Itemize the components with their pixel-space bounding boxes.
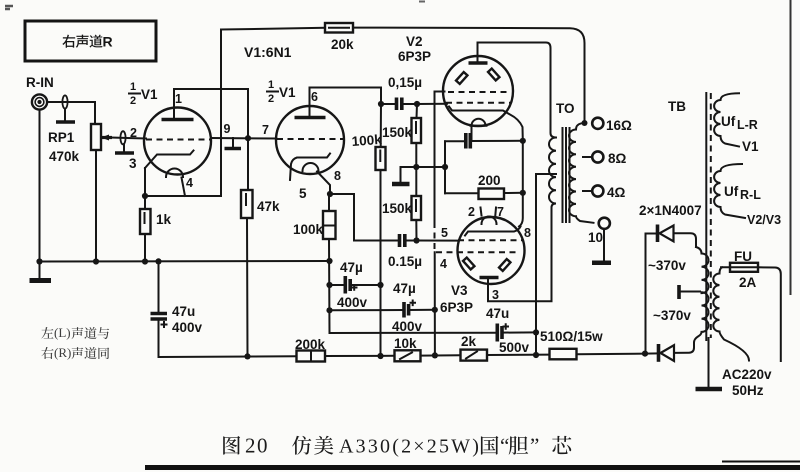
svg-text:~370v: ~370v: [653, 308, 691, 323]
node 47u first right: [377, 282, 383, 288]
ground stub at pin 2 connector: [115, 144, 134, 153]
label V3 6P3P: [440, 283, 473, 315]
heater lead down to cap: [471, 126, 473, 141]
svg-text:5: 5: [299, 186, 307, 201]
svg-text:8: 8: [334, 169, 341, 183]
label 1/2 V1 first: [129, 81, 158, 107]
svg-text:47u: 47u: [486, 306, 509, 321]
svg-text:3: 3: [129, 156, 137, 171]
svg-text:V2: V2: [406, 34, 423, 49]
svg-text:7: 7: [497, 205, 504, 219]
potentiometer RP1 470k: [48, 124, 112, 164]
heater bump: [166, 169, 183, 178]
resistor 200: [445, 173, 523, 199]
svg-text:R: R: [103, 34, 113, 50]
svg-text:2: 2: [468, 205, 475, 219]
beam plate left: [463, 258, 474, 270]
node 150k junction: [413, 164, 419, 170]
node chain 310: [326, 307, 332, 313]
wire 47k bottom down to lower bus: [246, 218, 249, 357]
wire 100k upper chain down: [380, 104, 383, 357]
svg-text:47µ: 47µ: [340, 260, 363, 275]
pin connector ellipse on input wire: [62, 95, 67, 108]
svg-text:2×1N4007: 2×1N4007: [639, 203, 702, 218]
plate bar: [480, 276, 499, 280]
right border line: [790, 0, 792, 295]
plate bar: [295, 116, 326, 120]
svg-text:47k: 47k: [257, 199, 280, 214]
terminal 4 ohm: [592, 185, 603, 196]
svg-text:V1:6N1: V1:6N1: [244, 44, 292, 60]
note line 右(R)声道同: [41, 345, 109, 360]
capacitor 47u 500v: [486, 306, 536, 355]
svg-text:4: 4: [186, 176, 193, 190]
node 200 right: [520, 190, 526, 196]
wire RC chain y333: [330, 332, 498, 334]
svg-text:3: 3: [492, 288, 499, 302]
svg-text:AC220v: AC220v: [722, 367, 772, 382]
coupling capacitor 0,15u (V1b plate to V2 grid): [381, 75, 422, 110]
svg-text:8: 8: [524, 226, 531, 240]
svg-text:V1: V1: [742, 139, 759, 154]
heater bump: [303, 163, 319, 171]
wire 1k leads: [144, 196, 146, 262]
svg-text:150k: 150k: [382, 201, 413, 216]
tube V2 6P3P: [443, 56, 523, 141]
node coupling V3: [413, 237, 419, 243]
svg-text:6P3P: 6P3P: [440, 300, 473, 315]
g2 dashes: [436, 251, 519, 253]
wire 150k upper leads: [415, 104, 418, 167]
caption 图20 仿美A330: [223, 434, 571, 458]
feedback wire to output transformer tap: [353, 28, 585, 123]
svg-text:4: 4: [440, 257, 447, 271]
cathode shelf: [449, 107, 523, 141]
node bus rectifier: [642, 351, 648, 357]
wire jack to RP1: [47, 102, 95, 124]
svg-text:2: 2: [130, 126, 137, 140]
diode D1: [646, 225, 697, 248]
svg-text:20k: 20k: [331, 37, 354, 52]
node feedback tap: [582, 120, 588, 126]
cathode bump: [482, 217, 497, 224]
svg-text:47u: 47u: [172, 304, 195, 319]
tube V3 6P3P: [436, 205, 525, 284]
plate lead V1a pin 1 over to 47k: [174, 89, 248, 190]
svg-text:R-L: R-L: [740, 188, 761, 202]
note line 左(L)声道与: [41, 325, 109, 340]
wire to V3 grid pin 5: [417, 240, 458, 242]
svg-text:2A: 2A: [739, 275, 757, 290]
svg-text:TB: TB: [668, 99, 686, 114]
primary center tap: [536, 174, 556, 355]
svg-text:6P3P: 6P3P: [398, 49, 431, 64]
bottom border bar: [145, 465, 800, 470]
node chain 261: [326, 258, 332, 264]
svg-text:470k: 470k: [49, 149, 80, 164]
svg-text:A330(2×25W): A330(2×25W): [339, 436, 481, 458]
svg-text:9: 9: [224, 122, 231, 136]
rectifier vertical wire: [645, 234, 647, 354]
core ground: [708, 338, 710, 388]
filament winding Uf R-L: [714, 164, 745, 218]
core solid line: [705, 93, 707, 340]
wire to V2 grid: [417, 103, 447, 105]
cathode shelf: [290, 154, 330, 181]
cathode shelf: [145, 151, 194, 169]
wire V1a to V1b grid (pins 9/7): [211, 137, 277, 140]
heater bump: [471, 119, 487, 126]
svg-text:500v: 500v: [499, 340, 530, 355]
wire RP1 bottom to bus: [95, 150, 97, 262]
capacitor 47u 400v second: [392, 281, 435, 334]
primary winding: [549, 138, 556, 208]
svg-text:RP1: RP1: [48, 130, 75, 145]
resistor 10k (pot): [394, 336, 421, 361]
node 47u500v right: [533, 329, 539, 335]
node bus input: [36, 258, 42, 264]
plate bar: [469, 61, 488, 65]
wire 100k leads and RC chain x330: [328, 194, 331, 333]
svg-text:L-R: L-R: [737, 118, 758, 132]
svg-text:1: 1: [175, 92, 182, 106]
lower B+ bus: [159, 354, 646, 357]
resistor 20k (feedback): [221, 23, 354, 52]
svg-text:150k: 150k: [382, 125, 413, 140]
tap 8 ohm: [583, 156, 592, 158]
svg-text:1: 1: [268, 79, 274, 91]
node coupling right: [414, 101, 420, 107]
svg-text:50Hz: 50Hz: [732, 383, 764, 398]
title text 右声道R: [62, 34, 112, 50]
svg-text:“: “: [500, 434, 509, 458]
center tap: [679, 291, 700, 293]
V2 plate wire to transformer primary top: [478, 43, 557, 138]
node bus filter cap: [155, 258, 161, 264]
terminal 16 ohm: [592, 118, 603, 129]
svg-text:1: 1: [130, 81, 136, 93]
ground below 10: [603, 229, 605, 262]
resistor 200k: [295, 337, 326, 362]
svg-text:8Ω: 8Ω: [608, 151, 627, 166]
svg-text:TO: TO: [556, 101, 575, 116]
capacitor 47u 400v first: [330, 260, 381, 310]
svg-text:0,15µ: 0,15µ: [388, 75, 422, 90]
V3 plate wire to transformer primary bottom: [488, 208, 552, 302]
svg-text:7: 7: [262, 123, 269, 137]
input jack R-IN: [26, 75, 54, 110]
svg-text:400v: 400v: [337, 295, 368, 310]
ground stub at input connector: [56, 109, 75, 122]
svg-text:4Ω: 4Ω: [607, 185, 626, 200]
node 167 on loop: [442, 164, 448, 170]
beam plate right: [488, 69, 499, 81]
ground bus wire y261: [40, 260, 330, 263]
wire jack down to ground bus: [39, 110, 41, 262]
control grid dashes g1: [446, 102, 510, 104]
wire feedback vertical x221: [220, 30, 222, 197]
svg-text:(L): (L): [54, 325, 71, 340]
svg-text:2: 2: [268, 93, 274, 105]
label 1/2 V1 second: [267, 79, 296, 105]
wire RC chain y310: [330, 309, 405, 311]
svg-text:20: 20: [245, 434, 269, 458]
label V2 6P3P: [398, 34, 431, 64]
svg-text:0.15µ: 0.15µ: [388, 254, 422, 269]
cathode shelf: [465, 227, 521, 236]
beam plate left: [456, 72, 467, 84]
grid dashed line: [277, 138, 343, 140]
svg-text:Uf: Uf: [721, 114, 736, 129]
node bus pot: [93, 258, 99, 264]
resistor 150k upper: [382, 118, 421, 143]
node cathode loop: [520, 138, 526, 144]
heater lead pin 4: [182, 178, 186, 197]
capacitor 47u 400v main filter: [151, 261, 203, 357]
V2 screen grid tie line: [435, 92, 445, 223]
filament winding Uf L-R: [714, 93, 739, 146]
wire loop left side down: [444, 141, 446, 193]
node bus screen chain: [432, 352, 438, 358]
ground stub at 167: [392, 167, 410, 184]
svg-text:(R): (R): [54, 345, 71, 360]
node bus 100k chain: [377, 353, 383, 359]
cathode lead pin 8: [317, 172, 330, 195]
core dashed line: [710, 93, 712, 338]
terminal 10: [599, 218, 610, 229]
svg-text:100k: 100k: [293, 222, 324, 237]
AC primary winding: [713, 267, 749, 360]
grid dashed line: [146, 139, 210, 141]
cathode wire pin 3 to junction: [144, 168, 146, 196]
resistor 150k lower: [382, 196, 421, 220]
screen chain vertical x434: [434, 252, 436, 355]
svg-text:Uf: Uf: [724, 184, 739, 199]
svg-text:510Ω/15w: 510Ω/15w: [540, 329, 603, 344]
svg-text:47µ: 47µ: [393, 281, 416, 296]
diode D2: [645, 343, 694, 362]
power transformer TB: [648, 93, 781, 398]
core lines: [563, 128, 570, 222]
dashed screen link to V3: [434, 222, 436, 252]
title box 右声道R: [25, 21, 156, 61]
terminal 8 ohm: [592, 151, 603, 162]
wire V1b cathode to coupling cap 2: [330, 194, 399, 241]
ground stub pin 9: [225, 138, 242, 149]
svg-text:V1: V1: [141, 87, 158, 102]
resistor 1k: [140, 209, 172, 234]
beam plate right: [499, 259, 510, 271]
node bus 47k: [244, 353, 250, 359]
svg-text:5: 5: [441, 226, 448, 240]
svg-text:200: 200: [478, 173, 501, 188]
tube V1a (1/2 V1): [129, 108, 211, 197]
svg-text:~370v: ~370v: [648, 258, 686, 273]
svg-text:R-IN: R-IN: [26, 75, 54, 90]
resistor 2k (pot): [461, 334, 488, 361]
tube V1b (1/2 V1): [276, 106, 344, 201]
node direct coupling at 47k: [245, 135, 251, 141]
svg-text:2k: 2k: [461, 334, 477, 349]
svg-text:6: 6: [311, 90, 318, 104]
wire wiper to V1a grid pin 2: [111, 138, 146, 139]
resistor 100k (grid leak upper): [351, 132, 385, 170]
heater pins 2 7 ticks: [481, 208, 497, 216]
svg-text:V1: V1: [279, 85, 296, 100]
svg-text:1k: 1k: [156, 212, 172, 227]
g1 dashes: [458, 239, 522, 241]
plate lead V1b pin 6 to coupling node: [310, 88, 382, 118]
pin connector ellipse at pin 2: [120, 131, 125, 144]
screen grid dashes g2: [448, 91, 508, 93]
V2 cathode bypass capacitor: [445, 133, 523, 149]
coupling capacitor 0.15u (V1b cathode to V3 grid): [388, 234, 422, 269]
main ground symbol: [30, 262, 52, 281]
svg-text:10: 10: [588, 230, 603, 245]
wire cathode loop down to V3 pin 8: [519, 141, 523, 227]
svg-text:16Ω: 16Ω: [606, 118, 632, 133]
svg-text:400v: 400v: [172, 320, 203, 335]
node chain 285: [326, 282, 332, 288]
svg-text:V3: V3: [451, 283, 468, 298]
wire cathode junction to x221 vertical: [145, 195, 221, 197]
svg-text:400v: 400v: [392, 319, 423, 334]
tap 4 ohm: [583, 190, 592, 192]
output transformer TO: [536, 101, 632, 355]
node V1b cathode: [327, 191, 333, 197]
svg-text:10k: 10k: [394, 336, 417, 351]
node screen chain 310: [432, 307, 438, 313]
svg-text:V2/V3: V2/V3: [747, 213, 781, 227]
resistor 100k (V1b cathode): [293, 211, 336, 239]
node V1a cathode: [142, 193, 148, 199]
svg-text:2: 2: [130, 95, 136, 107]
node bus center tap: [533, 352, 539, 358]
plate bar: [162, 118, 194, 122]
node bus 1k: [142, 258, 148, 264]
HV winding: [694, 247, 709, 343]
secondary winding: [569, 123, 593, 223]
node coupling left: [378, 101, 384, 107]
svg-text:”: ”: [530, 434, 539, 458]
wire 150k lower leads: [415, 167, 417, 241]
wire y167 with ground: [401, 166, 445, 168]
resistor 47k: [241, 190, 280, 218]
resistor 510 ohm 15w: [540, 329, 603, 359]
